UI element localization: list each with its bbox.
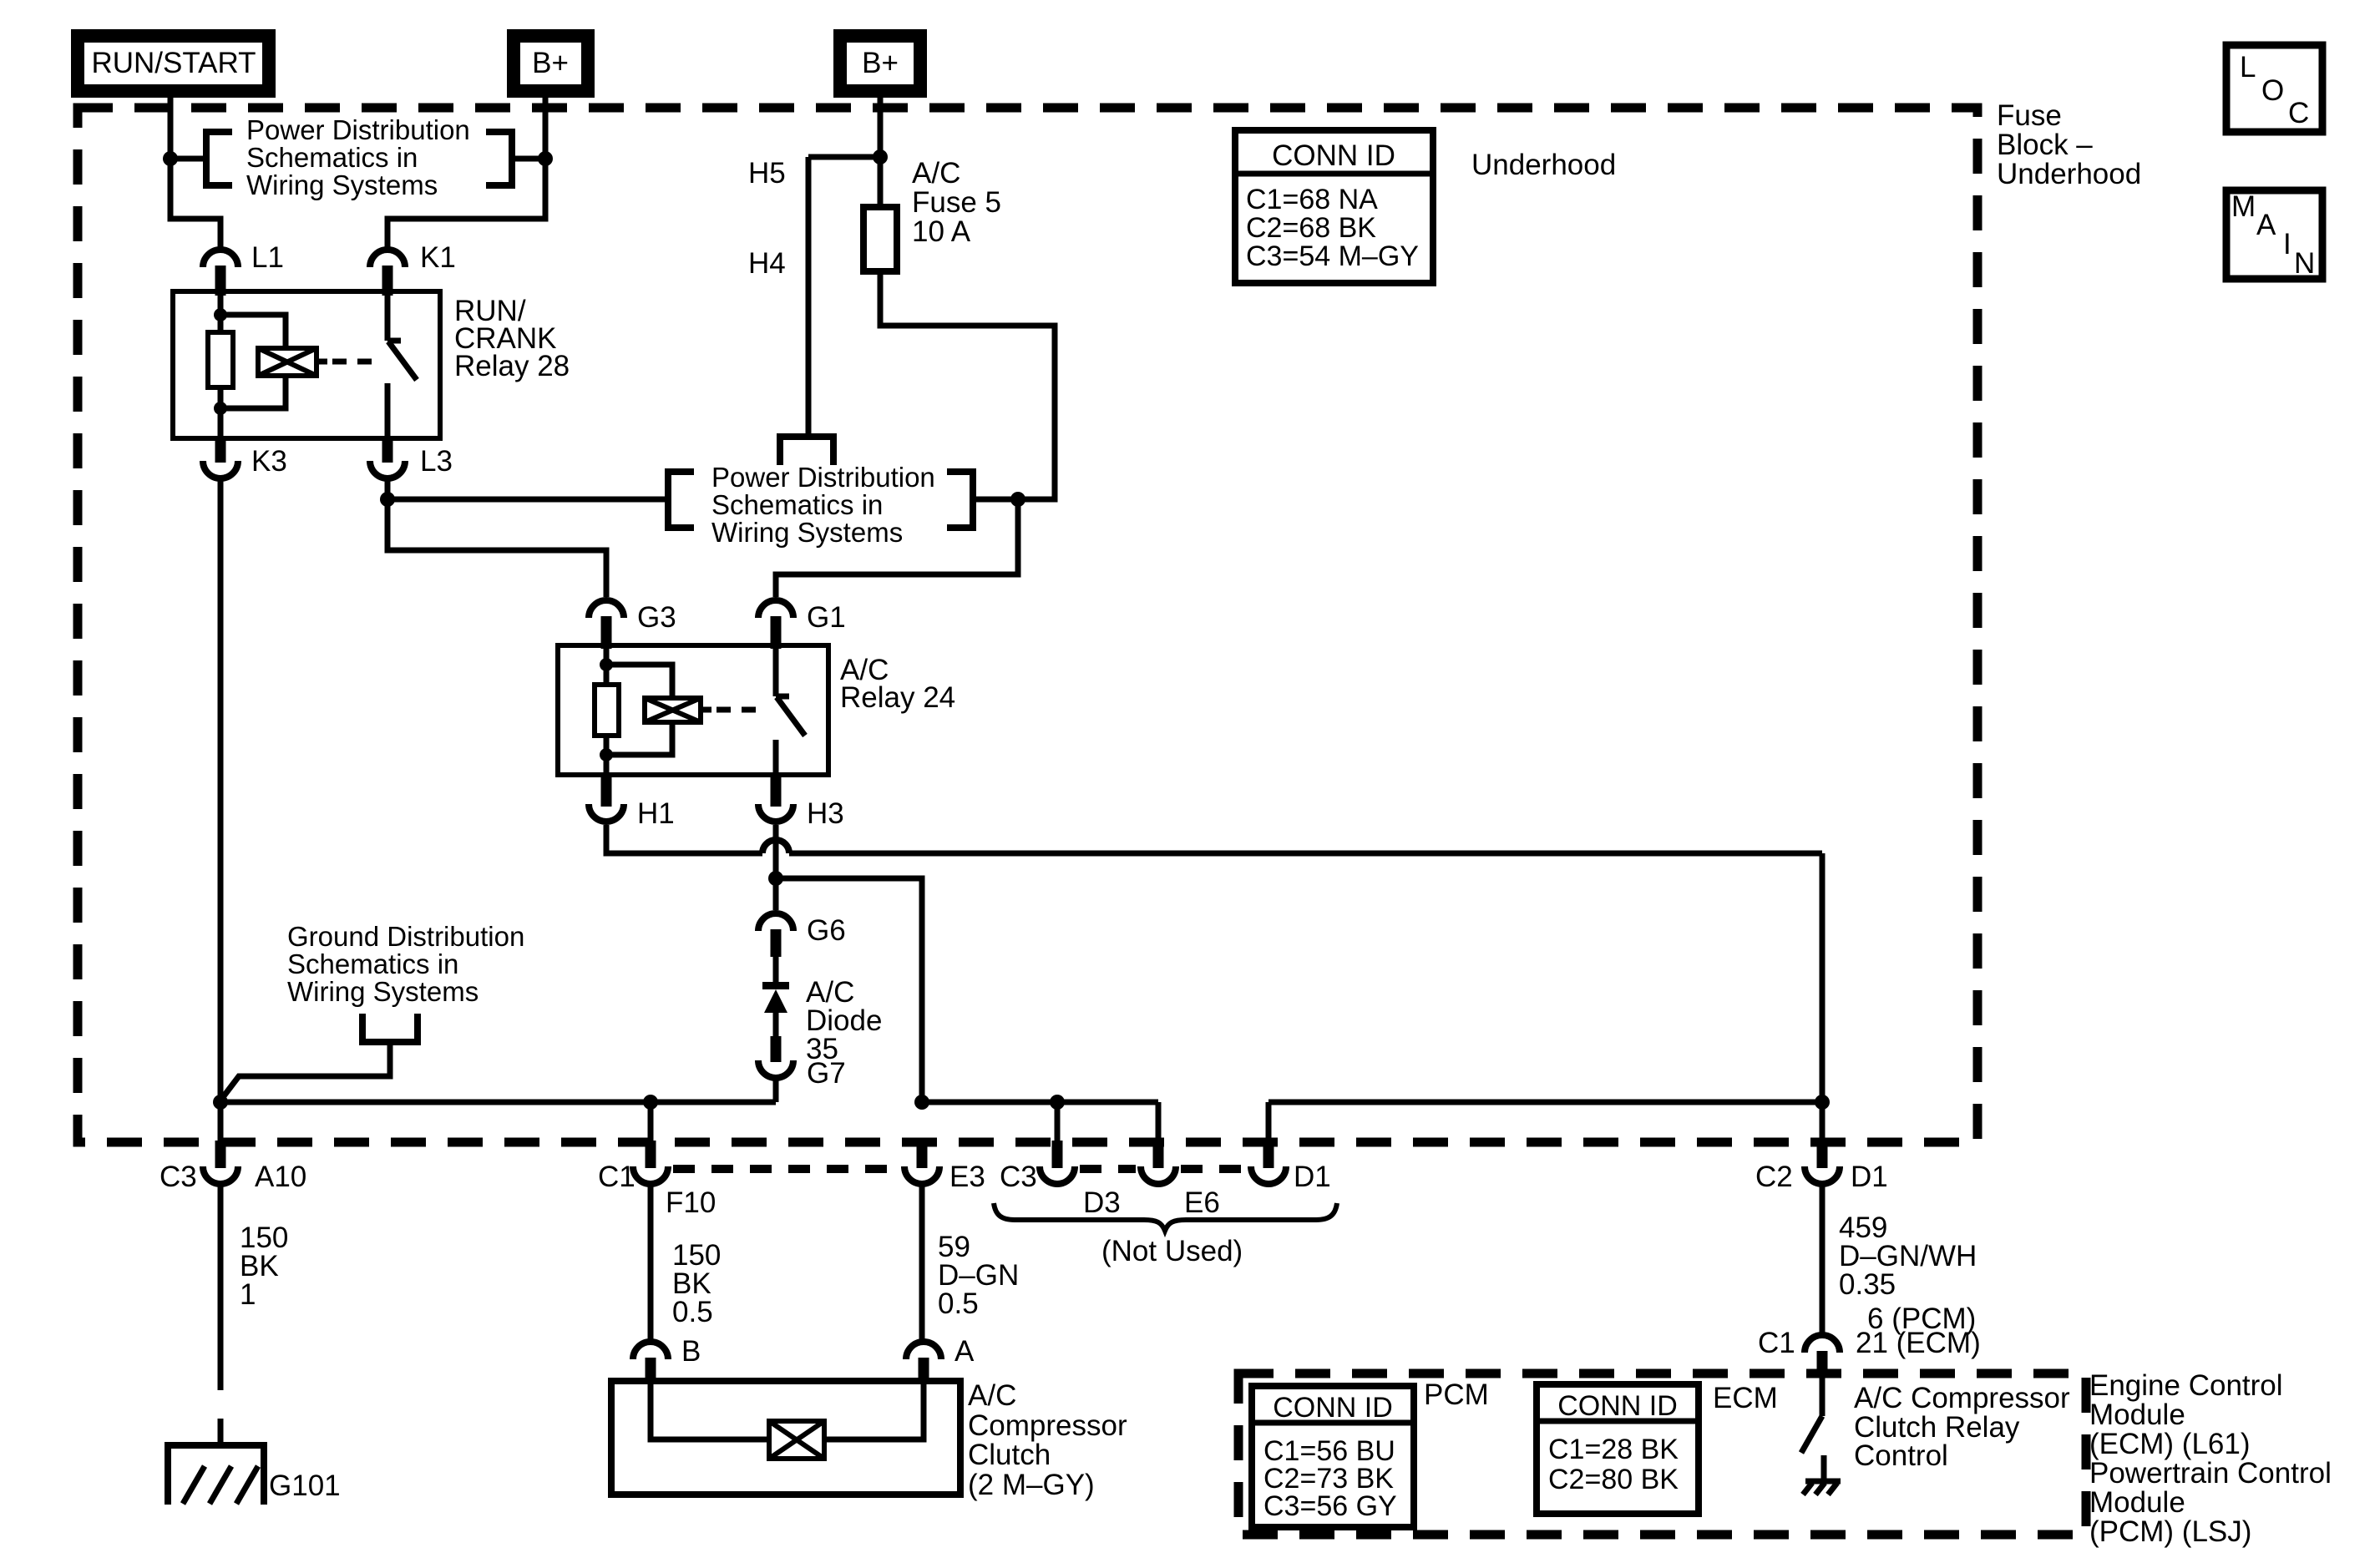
relay RUN/CRANK Relay 28 — [173, 291, 570, 438]
svg-text:C: C — [2288, 97, 2309, 129]
svg-text:CONN ID: CONN ID — [1273, 1392, 1393, 1424]
connector H3 — [758, 775, 844, 830]
svg-text:CONN ID: CONN ID — [1557, 1390, 1678, 1422]
wire bus E3/D3/E6 — [914, 1095, 1158, 1142]
svg-text:Clutch: Clutch — [968, 1439, 1051, 1471]
connector D1 — [1251, 1141, 1331, 1193]
svg-text:Engine Control: Engine Control — [2089, 1369, 2283, 1402]
source box B+ (left) — [514, 36, 588, 91]
svg-text:A: A — [955, 1335, 975, 1368]
svg-text:H3: H3 — [807, 797, 844, 830]
wire F10 to B with 150 BK 0.5 — [651, 1186, 721, 1339]
wire H3 down to G6 with branch to E3 — [768, 825, 922, 1102]
connector B — [633, 1335, 701, 1384]
svg-text:G6: G6 — [807, 914, 846, 947]
svg-text:G7: G7 — [807, 1057, 846, 1090]
svg-text:0.5: 0.5 — [672, 1296, 713, 1328]
svg-text:I: I — [2283, 228, 2291, 261]
svg-text:Control: Control — [1854, 1439, 1948, 1472]
svg-text:Wiring Systems: Wiring Systems — [287, 976, 479, 1007]
svg-text:L1: L1 — [251, 241, 284, 274]
svg-text:(ECM) (L61): (ECM) (L61) — [2089, 1428, 2251, 1460]
svg-text:A/C Compressor: A/C Compressor — [1854, 1382, 2070, 1414]
connector C2 D1 (right) — [1755, 1141, 1888, 1193]
ECM/PCM dashed module box — [1238, 1373, 2086, 1535]
svg-text:1: 1 — [240, 1278, 256, 1311]
svg-text:PCM: PCM — [1424, 1378, 1489, 1411]
wire K3 down to A10 — [218, 481, 224, 1142]
svg-text:C3=54 M–GY: C3=54 M–GY — [1246, 240, 1419, 272]
note: power distribution reference (top) — [174, 114, 543, 200]
ECM CONN ID table — [1537, 1382, 1778, 1514]
svg-text:K1: K1 — [420, 241, 456, 274]
svg-text:H1: H1 — [637, 797, 675, 830]
svg-text:Wiring Systems: Wiring Systems — [711, 517, 903, 548]
note: ground distribution reference — [220, 921, 524, 1100]
svg-text:A10: A10 — [255, 1161, 306, 1193]
wire B+ to K1 — [387, 98, 553, 247]
svg-text:Power Distribution: Power Distribution — [711, 462, 935, 493]
svg-text:C2=80 BK: C2=80 BK — [1548, 1464, 1679, 1495]
wire E3 to A with 59 D-GN 0.5 — [922, 1186, 1019, 1339]
svg-text:(PCM) (LSJ): (PCM) (LSJ) — [2089, 1515, 2251, 1548]
connector A10 (C3) — [160, 1141, 306, 1193]
A/C Compressor Clutch box — [611, 1379, 1127, 1501]
svg-text:(2 M–GY): (2 M–GY) — [968, 1469, 1095, 1501]
svg-text:L3: L3 — [420, 445, 453, 478]
svg-text:Relay 28: Relay 28 — [454, 350, 570, 382]
svg-text:C1: C1 — [598, 1161, 636, 1193]
relay A/C Relay 24 — [558, 645, 955, 775]
svg-text:Ground Distribution: Ground Distribution — [287, 921, 524, 952]
svg-text:C3: C3 — [160, 1161, 197, 1193]
dotted in-line connector line — [673, 1165, 1246, 1173]
connector G7 — [758, 1057, 846, 1090]
source box RUN/START — [78, 36, 269, 91]
svg-text:0.35: 0.35 — [1839, 1268, 1896, 1301]
svg-text:E6: E6 — [1184, 1186, 1220, 1219]
connector L1 — [203, 241, 284, 296]
connector H1 — [589, 775, 675, 830]
svg-text:C3: C3 — [1000, 1161, 1037, 1193]
svg-text:B+: B+ — [862, 47, 899, 79]
svg-text:E3: E3 — [949, 1161, 985, 1193]
wire L3 to G3 — [380, 481, 606, 597]
svg-text:D1: D1 — [1851, 1161, 1888, 1193]
source box B+ (right) — [840, 36, 920, 91]
svg-text:Underhood: Underhood — [1471, 149, 1616, 181]
connector L3 — [370, 438, 453, 478]
wire RUN/START to L1 — [163, 98, 220, 247]
PCM CONN ID table — [1252, 1378, 1489, 1527]
connector G1 — [758, 600, 846, 649]
svg-text:Compressor: Compressor — [968, 1409, 1127, 1442]
wire A10 to G101 with 150 BK 1 — [220, 1186, 288, 1445]
connector K1 — [370, 241, 456, 296]
svg-text:C1: C1 — [1758, 1327, 1795, 1359]
connector G6 — [758, 913, 846, 957]
connector K3 — [203, 438, 287, 478]
svg-text:C1=28 BK: C1=28 BK — [1548, 1434, 1679, 1465]
svg-text:L: L — [2240, 51, 2256, 83]
svg-text:0.5: 0.5 — [938, 1287, 979, 1320]
fuse A/C Fuse 5 10A — [748, 98, 1055, 597]
svg-text:A/C: A/C — [968, 1379, 1016, 1412]
brace (Not Used) — [994, 1203, 1337, 1267]
MAIN box — [2226, 190, 2322, 280]
svg-text:D3: D3 — [1083, 1186, 1121, 1219]
svg-text:RUN/START: RUN/START — [91, 47, 256, 79]
switch A/C Compressor Clutch Relay Control — [1801, 1378, 2070, 1495]
svg-text:F10: F10 — [666, 1186, 716, 1219]
svg-text:CONN ID: CONN ID — [1272, 139, 1395, 172]
diode A/C Diode 35 — [762, 957, 882, 1065]
LOC box — [2226, 45, 2322, 132]
connector E3 — [904, 1141, 985, 1193]
label: Fuse Block - Underhood — [1997, 99, 2141, 190]
svg-text:(Not Used): (Not Used) — [1101, 1235, 1243, 1267]
svg-text:Underhood: Underhood — [1997, 158, 2141, 190]
svg-text:A/C: A/C — [912, 157, 960, 190]
connector G3 — [589, 600, 676, 649]
wire ground bus A10 to G7 — [213, 1080, 776, 1142]
svg-text:C3=56 GY: C3=56 GY — [1263, 1490, 1397, 1522]
svg-text:G3: G3 — [637, 601, 676, 634]
svg-text:K3: K3 — [251, 445, 287, 478]
svg-text:D1: D1 — [1294, 1161, 1331, 1193]
CONN ID table (underhood) — [1235, 130, 1433, 283]
connector C1 (ECM) — [1758, 1327, 1981, 1378]
svg-text:Module: Module — [2089, 1486, 2185, 1519]
svg-text:M: M — [2231, 190, 2256, 223]
svg-text:Block –: Block – — [1997, 129, 2093, 161]
svg-text:21 (ECM): 21 (ECM) — [1856, 1327, 1981, 1359]
svg-text:Schematics in: Schematics in — [246, 142, 418, 173]
svg-text:ECM: ECM — [1713, 1382, 1778, 1414]
svg-text:C2=68 BK: C2=68 BK — [1246, 212, 1376, 244]
svg-text:Power Distribution: Power Distribution — [246, 114, 470, 145]
ground G101 — [168, 1445, 341, 1505]
svg-text:O: O — [2261, 74, 2284, 107]
svg-text:Schematics in: Schematics in — [711, 489, 883, 520]
fuse block underhood dashed border — [78, 108, 1977, 1142]
svg-text:N: N — [2294, 247, 2315, 280]
svg-text:Schematics in: Schematics in — [287, 948, 458, 979]
svg-text:C1=68 NA: C1=68 NA — [1246, 184, 1378, 215]
svg-text:G101: G101 — [269, 1469, 341, 1502]
label: Engine Control Module — [2089, 1369, 2332, 1548]
wire bus D1 to ECM drop — [1268, 853, 1830, 1142]
svg-text:C2: C2 — [1755, 1161, 1793, 1193]
connector F10 (C1) — [598, 1141, 716, 1219]
svg-text:G1: G1 — [807, 601, 846, 634]
wire C2/D1 to C1 with 459 D-GN/WH 0.35 — [1822, 1186, 1977, 1335]
svg-text:A: A — [2256, 209, 2276, 241]
svg-text:Fuse: Fuse — [1997, 99, 2062, 132]
svg-text:10 A: 10 A — [912, 215, 971, 248]
connector A — [906, 1335, 975, 1384]
connector E6 — [1141, 1141, 1220, 1219]
connector D3 (C3) — [1000, 1141, 1121, 1219]
svg-text:B+: B+ — [532, 47, 569, 79]
svg-text:Fuse 5: Fuse 5 — [912, 186, 1001, 219]
svg-text:Powertrain Control: Powertrain Control — [2089, 1457, 2332, 1490]
note: power distribution reference (middle) — [391, 462, 1015, 548]
svg-text:B: B — [681, 1335, 701, 1368]
svg-text:H5: H5 — [748, 157, 786, 190]
svg-text:Wiring Systems: Wiring Systems — [246, 169, 438, 200]
svg-text:Relay 24: Relay 24 — [840, 681, 955, 714]
svg-text:Module: Module — [2089, 1399, 2185, 1431]
wire H1 bus to right with hop over H3 — [606, 825, 1822, 853]
svg-text:H4: H4 — [748, 247, 786, 280]
